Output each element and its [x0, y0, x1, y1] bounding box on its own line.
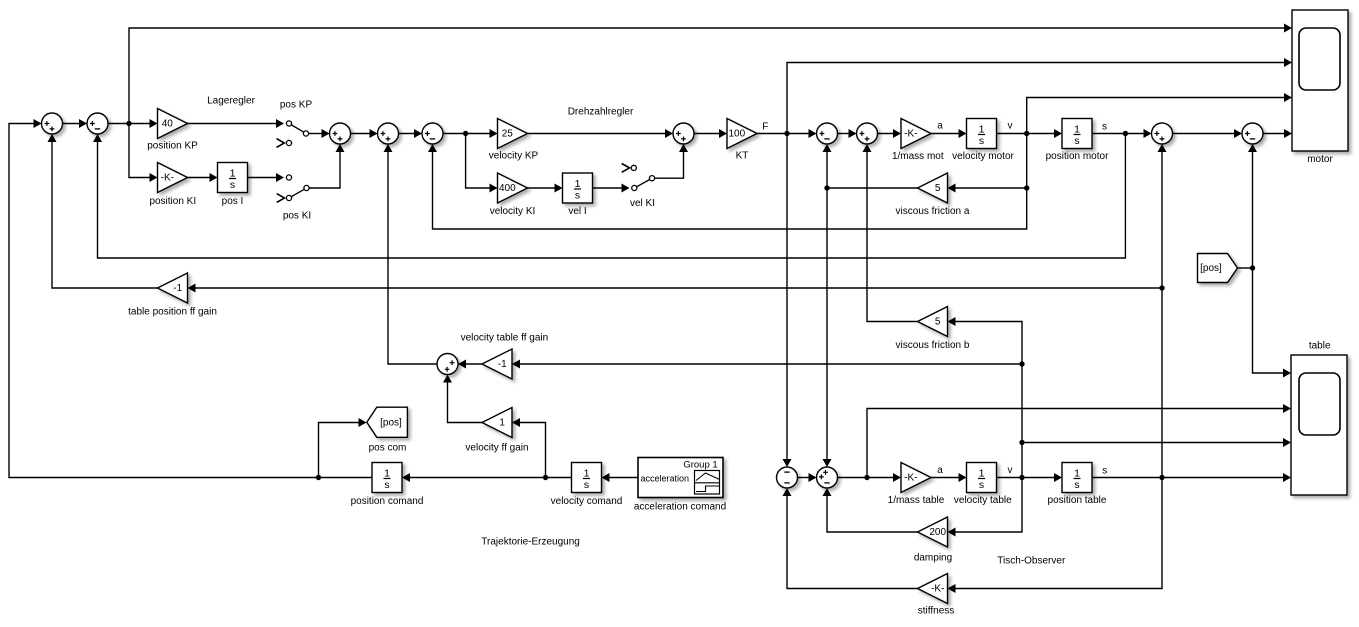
- svg-text:a: a: [937, 465, 943, 476]
- svg-text:velocity ff gain: velocity ff gain: [465, 443, 528, 454]
- svg-text:velocity table: velocity table: [954, 495, 1012, 506]
- svg-text:s: s: [1074, 479, 1079, 491]
- svg-text:damping: damping: [914, 553, 952, 564]
- svg-text:acceleration: acceleration: [641, 474, 690, 484]
- svg-text:[pos]: [pos]: [1200, 263, 1222, 274]
- svg-text:[pos]: [pos]: [380, 417, 402, 428]
- svg-text:Tisch-Observer: Tisch-Observer: [997, 556, 1066, 567]
- svg-text:1/mass table: 1/mass table: [888, 495, 945, 506]
- svg-text:position KI: position KI: [149, 196, 196, 207]
- svg-text:1: 1: [499, 418, 505, 429]
- svg-text:velocity table ff gain: velocity table ff gain: [461, 333, 549, 344]
- svg-text:-K-: -K-: [931, 584, 944, 595]
- svg-text:Drehzahlregler: Drehzahlregler: [568, 107, 634, 118]
- svg-text:viscous friction a: viscous friction a: [896, 206, 970, 217]
- svg-text:200: 200: [929, 527, 946, 538]
- svg-text:1: 1: [575, 178, 581, 190]
- svg-text:1: 1: [584, 468, 590, 480]
- svg-text:Trajektorie-Erzeugung: Trajektorie-Erzeugung: [481, 537, 580, 548]
- svg-text:stiffness: stiffness: [918, 606, 955, 617]
- svg-text:table position ff gain: table position ff gain: [128, 306, 217, 317]
- svg-text:25: 25: [502, 129, 514, 140]
- svg-text:KT: KT: [736, 151, 749, 162]
- svg-text:5: 5: [935, 183, 941, 194]
- svg-text:Group 1: Group 1: [683, 460, 717, 471]
- svg-text:velocity KP: velocity KP: [489, 151, 539, 162]
- svg-text:motor: motor: [1307, 154, 1333, 165]
- svg-text:position comand: position comand: [351, 496, 424, 507]
- svg-text:F: F: [762, 121, 768, 132]
- svg-text:table: table: [1309, 341, 1331, 352]
- svg-text:1: 1: [230, 168, 236, 180]
- svg-text:pos I: pos I: [222, 196, 244, 207]
- svg-text:s: s: [1074, 135, 1079, 147]
- svg-text:velocity KI: velocity KI: [490, 206, 536, 217]
- svg-text:position motor: position motor: [1046, 151, 1109, 162]
- svg-text:-1: -1: [173, 283, 182, 294]
- svg-text:s: s: [979, 479, 984, 491]
- svg-text:pos KI: pos KI: [283, 211, 311, 222]
- svg-text:-K-: -K-: [161, 173, 174, 184]
- svg-text:-1: -1: [498, 359, 507, 370]
- svg-text:viscous friction b: viscous friction b: [896, 340, 970, 351]
- svg-text:s: s: [1102, 466, 1107, 477]
- svg-text:a: a: [937, 121, 943, 132]
- svg-text:1: 1: [384, 468, 390, 480]
- svg-text:position KP: position KP: [147, 141, 198, 152]
- svg-text:velocity motor: velocity motor: [952, 151, 1014, 162]
- svg-text:s: s: [230, 179, 235, 191]
- svg-text:1: 1: [979, 124, 985, 136]
- svg-text:1: 1: [1074, 124, 1080, 136]
- svg-text:400: 400: [499, 183, 516, 194]
- svg-text:pos KP: pos KP: [280, 100, 313, 111]
- svg-text:1/mass mot: 1/mass mot: [892, 151, 944, 162]
- svg-text:1: 1: [1074, 468, 1080, 480]
- svg-text:40: 40: [162, 119, 174, 130]
- svg-text:Lageregler: Lageregler: [207, 96, 255, 107]
- svg-text:vel I: vel I: [568, 206, 586, 217]
- svg-text:s: s: [979, 135, 984, 147]
- svg-text:s: s: [584, 479, 589, 491]
- svg-text:s: s: [1102, 122, 1107, 133]
- svg-text:5: 5: [935, 317, 941, 328]
- svg-text:position table: position table: [1048, 495, 1107, 506]
- svg-text:acceleration comand: acceleration comand: [634, 502, 726, 513]
- svg-text:velocity comand: velocity comand: [551, 496, 623, 507]
- svg-text:100: 100: [728, 129, 745, 140]
- svg-text:v: v: [1008, 121, 1013, 132]
- svg-text:s: s: [575, 189, 580, 201]
- svg-text:-K-: -K-: [904, 129, 917, 140]
- svg-text:-K-: -K-: [904, 473, 917, 484]
- svg-text:1: 1: [979, 468, 985, 480]
- svg-text:v: v: [1008, 465, 1013, 476]
- svg-text:s: s: [384, 479, 389, 491]
- svg-text:vel KI: vel KI: [630, 198, 655, 209]
- svg-text:pos com: pos com: [369, 443, 407, 454]
